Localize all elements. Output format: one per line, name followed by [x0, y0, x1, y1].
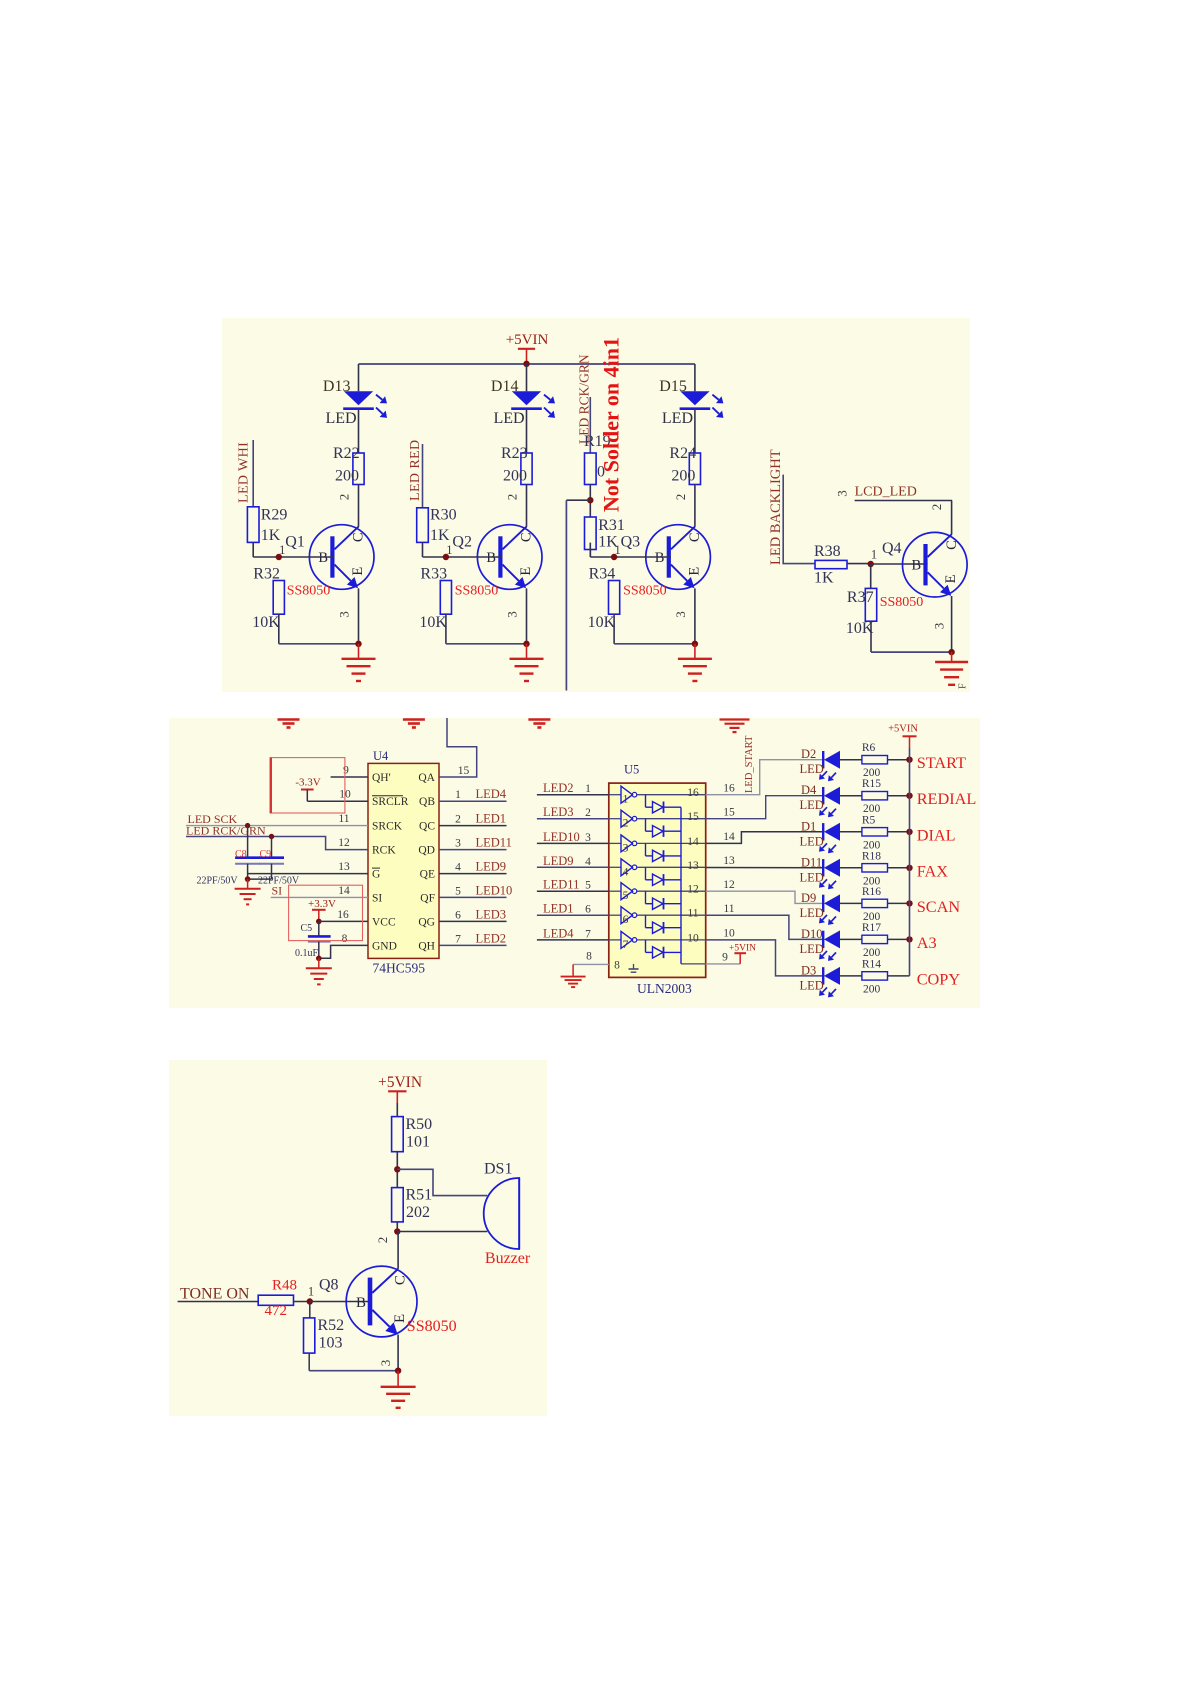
svg-text:R38: R38 [814, 543, 841, 560]
svg-text:C: C [351, 532, 367, 542]
svg-text:LED: LED [800, 762, 824, 776]
svg-text:REDIAL: REDIAL [917, 789, 977, 808]
svg-text:16: 16 [687, 787, 699, 799]
svg-text:Q8: Q8 [319, 1277, 339, 1294]
svg-text:R48: R48 [272, 1278, 297, 1294]
svg-text:+5VIN: +5VIN [506, 332, 549, 348]
svg-text:LED: LED [800, 798, 824, 812]
svg-text:1: 1 [871, 548, 877, 562]
svg-text:15: 15 [687, 811, 699, 823]
svg-text:1K: 1K [261, 527, 281, 544]
svg-text:1: 1 [279, 543, 285, 557]
svg-text:DIAL: DIAL [917, 825, 956, 844]
svg-text:TONE ON: TONE ON [180, 1286, 250, 1303]
svg-text:QA: QA [418, 772, 435, 784]
svg-text:2: 2 [929, 504, 944, 511]
svg-text:200: 200 [503, 468, 527, 485]
svg-text:LED9: LED9 [476, 860, 507, 874]
svg-text:472: 472 [265, 1303, 288, 1319]
svg-text:LED1: LED1 [476, 812, 507, 826]
svg-text:R31: R31 [598, 517, 625, 534]
svg-text:FAX: FAX [917, 861, 949, 880]
svg-text:QG: QG [418, 916, 435, 928]
svg-text:22PF/50V: 22PF/50V [197, 875, 239, 886]
svg-text:SS8050: SS8050 [407, 1318, 457, 1335]
svg-text:R5: R5 [862, 814, 876, 826]
svg-text:B: B [318, 550, 328, 566]
svg-text:A3: A3 [917, 933, 937, 952]
svg-text:D4: D4 [801, 783, 817, 797]
svg-text:2: 2 [623, 818, 629, 830]
svg-text:D1: D1 [801, 819, 816, 833]
svg-text:QE: QE [420, 869, 435, 881]
svg-text:2: 2 [673, 494, 688, 501]
svg-text:LED_START: LED_START [744, 735, 755, 793]
svg-text:QB: QB [419, 796, 435, 808]
svg-text:LED RCK/GRN: LED RCK/GRN [186, 824, 266, 838]
svg-text:QC: QC [419, 821, 435, 833]
svg-text:R22: R22 [333, 445, 360, 462]
svg-text:2: 2 [375, 1237, 390, 1244]
svg-text:QH': QH' [372, 772, 391, 784]
svg-text:74HC595: 74HC595 [373, 961, 426, 976]
svg-text:14: 14 [338, 885, 350, 897]
svg-text:202: 202 [406, 1204, 430, 1221]
svg-text:7: 7 [623, 939, 629, 951]
svg-text:GND: GND [372, 940, 397, 952]
svg-text:Q4: Q4 [882, 540, 902, 557]
svg-text:R6: R6 [862, 742, 876, 754]
svg-text:11: 11 [687, 908, 698, 920]
svg-text:10K: 10K [419, 614, 447, 631]
svg-text:G: G [372, 869, 380, 881]
svg-text:D14: D14 [491, 378, 519, 395]
svg-text:10K: 10K [846, 620, 874, 637]
svg-text:103: 103 [319, 1335, 343, 1352]
svg-text:E: E [392, 1314, 408, 1323]
svg-text:Q3: Q3 [621, 534, 641, 551]
svg-text:B: B [655, 550, 665, 566]
svg-text:LED: LED [800, 942, 824, 956]
svg-text:B: B [356, 1295, 366, 1311]
svg-text:R15: R15 [862, 778, 881, 790]
svg-text:3: 3 [623, 842, 629, 854]
svg-text:U4: U4 [373, 749, 389, 763]
svg-text:15: 15 [723, 807, 735, 819]
svg-text:+5VIN: +5VIN [378, 1074, 422, 1091]
svg-text:8: 8 [614, 960, 620, 972]
svg-text:16: 16 [723, 783, 735, 795]
svg-text:15: 15 [458, 765, 470, 777]
svg-text:E: E [943, 574, 959, 583]
svg-text:R32: R32 [253, 566, 280, 583]
svg-text:U5: U5 [624, 763, 639, 777]
svg-text:LED3: LED3 [543, 805, 574, 819]
svg-text:2: 2 [585, 807, 591, 819]
svg-text:D3: D3 [801, 963, 816, 977]
svg-text:B: B [911, 558, 921, 574]
svg-text:12: 12 [723, 879, 735, 891]
svg-text:R29: R29 [261, 507, 288, 524]
svg-text:R14: R14 [862, 958, 881, 970]
svg-text:3: 3 [455, 838, 461, 850]
svg-text:1: 1 [446, 543, 452, 557]
svg-text:SI: SI [272, 884, 283, 898]
svg-text:6: 6 [585, 904, 591, 916]
svg-text:1K: 1K [814, 570, 834, 587]
svg-text:ULN2003: ULN2003 [637, 981, 692, 996]
svg-text:11: 11 [338, 813, 349, 825]
svg-text:LED4: LED4 [543, 926, 574, 940]
svg-text:D10: D10 [801, 927, 823, 941]
svg-text:SI: SI [372, 892, 382, 904]
svg-text:LED RCK/GRN: LED RCK/GRN [577, 354, 592, 444]
svg-text:R34: R34 [589, 566, 616, 583]
svg-text:+5VIN: +5VIN [888, 724, 918, 735]
svg-text:1: 1 [614, 543, 620, 557]
svg-text:3: 3 [585, 832, 591, 844]
svg-text:QF: QF [420, 892, 435, 904]
svg-text:200: 200 [863, 947, 881, 959]
svg-text:8: 8 [342, 933, 348, 945]
svg-text:D15: D15 [659, 378, 687, 395]
svg-text:1: 1 [623, 794, 629, 806]
svg-text:C9: C9 [260, 849, 272, 860]
svg-text:COPY: COPY [917, 969, 961, 988]
svg-text:LED11: LED11 [543, 878, 579, 892]
svg-text:1K: 1K [430, 527, 450, 544]
svg-text:2: 2 [337, 494, 352, 501]
svg-text:1: 1 [585, 783, 591, 795]
svg-text:14: 14 [723, 831, 735, 843]
svg-text:SCAN: SCAN [917, 897, 961, 916]
svg-text:12: 12 [687, 884, 699, 896]
svg-text:C5: C5 [301, 923, 313, 934]
svg-text:C8: C8 [235, 849, 247, 860]
svg-text:9: 9 [722, 952, 728, 964]
svg-text:R16: R16 [862, 886, 881, 898]
svg-text:R23: R23 [501, 445, 528, 462]
svg-text:C: C [393, 1275, 409, 1285]
svg-text:9: 9 [343, 765, 349, 777]
svg-text:C: C [944, 540, 960, 550]
svg-text:RCK: RCK [372, 845, 396, 857]
svg-text:13: 13 [687, 860, 699, 872]
svg-text:10: 10 [687, 932, 699, 944]
svg-text:C: C [687, 532, 703, 542]
svg-text:LED: LED [800, 834, 824, 848]
svg-text:R33: R33 [420, 566, 447, 583]
svg-text:LED9: LED9 [543, 854, 574, 868]
svg-text:SS8050: SS8050 [623, 584, 667, 599]
svg-text:LED3: LED3 [476, 907, 507, 921]
svg-text:+5VIN: +5VIN [729, 944, 756, 954]
svg-text:LED10: LED10 [543, 830, 580, 844]
svg-text:Not Solder on 4in1: Not Solder on 4in1 [599, 337, 624, 512]
svg-text:QH: QH [418, 940, 435, 952]
svg-text:200: 200 [671, 468, 695, 485]
svg-text:R51: R51 [406, 1187, 433, 1204]
svg-text:6: 6 [623, 914, 629, 926]
svg-text:LED: LED [494, 410, 525, 427]
svg-text:1: 1 [308, 1285, 314, 1299]
svg-text:+3.3V: +3.3V [308, 898, 336, 910]
svg-text:3: 3 [378, 1360, 393, 1367]
svg-text:7: 7 [455, 933, 461, 945]
svg-text:3: 3 [505, 611, 520, 618]
svg-text:D11: D11 [801, 855, 822, 869]
svg-text:C: C [519, 532, 535, 542]
svg-text:R30: R30 [430, 507, 457, 524]
svg-text:LED: LED [800, 978, 824, 992]
svg-text:R50: R50 [406, 1116, 433, 1133]
svg-text:VCC: VCC [372, 916, 396, 928]
svg-text:R24: R24 [669, 445, 696, 462]
svg-text:SS8050: SS8050 [455, 584, 499, 599]
svg-text:SS8050: SS8050 [287, 584, 331, 599]
svg-text:LED RED: LED RED [408, 439, 423, 501]
svg-text:5: 5 [623, 890, 629, 902]
svg-text:D2: D2 [801, 747, 816, 761]
svg-text:10K: 10K [588, 614, 616, 631]
svg-text:E: E [350, 567, 366, 576]
svg-text:R18: R18 [862, 850, 881, 862]
svg-text:8: 8 [586, 951, 592, 963]
svg-text:LED: LED [326, 410, 357, 427]
svg-text:QD: QD [418, 845, 435, 857]
svg-text:4: 4 [623, 866, 629, 878]
svg-text:LED2: LED2 [543, 781, 574, 795]
svg-text:5: 5 [585, 880, 591, 892]
svg-text:-3.3V: -3.3V [295, 777, 320, 789]
svg-text:LED WHI: LED WHI [237, 442, 252, 503]
svg-text:1: 1 [455, 789, 461, 801]
svg-text:200: 200 [335, 468, 359, 485]
svg-text:D9: D9 [801, 891, 816, 905]
svg-text:0.1uF: 0.1uF [295, 948, 319, 959]
svg-text:LED: LED [800, 870, 824, 884]
svg-text:DS1: DS1 [484, 1161, 512, 1178]
svg-text:10: 10 [723, 928, 735, 940]
svg-text:R37: R37 [847, 589, 874, 606]
svg-text:16: 16 [337, 909, 349, 921]
svg-text:LED11: LED11 [476, 836, 512, 850]
svg-text:SRCK: SRCK [372, 821, 403, 833]
svg-text:D13: D13 [323, 378, 351, 395]
svg-text:LCD_LED: LCD_LED [855, 485, 917, 500]
svg-text:LED2: LED2 [476, 931, 507, 945]
svg-text:LED: LED [662, 410, 693, 427]
svg-text:3: 3 [834, 490, 849, 497]
svg-text:LED10: LED10 [476, 883, 513, 897]
svg-text:3: 3 [932, 623, 947, 630]
svg-text:SS8050: SS8050 [880, 595, 924, 610]
svg-text:101: 101 [406, 1134, 430, 1151]
svg-text:13: 13 [338, 861, 350, 873]
svg-text:3: 3 [337, 611, 352, 618]
svg-text:LED4: LED4 [476, 787, 507, 801]
svg-text:LED BACKLIGHT: LED BACKLIGHT [768, 449, 784, 565]
svg-text:4: 4 [585, 856, 591, 868]
svg-text:11: 11 [723, 903, 734, 915]
svg-text:E: E [518, 567, 534, 576]
svg-text:7: 7 [585, 928, 591, 940]
svg-text:Buzzer: Buzzer [485, 1250, 531, 1267]
svg-text:10K: 10K [252, 614, 280, 631]
svg-text:6: 6 [455, 909, 461, 921]
svg-text:14: 14 [687, 836, 699, 848]
svg-text:B: B [486, 550, 496, 566]
svg-text:E: E [687, 567, 703, 576]
svg-text:2: 2 [505, 494, 520, 501]
svg-text:F: F [958, 683, 969, 689]
svg-text:R52: R52 [318, 1317, 345, 1334]
svg-text:START: START [917, 753, 966, 772]
svg-text:13: 13 [723, 855, 735, 867]
svg-text:12: 12 [338, 837, 350, 849]
svg-text:4: 4 [455, 862, 461, 874]
svg-text:Q1: Q1 [285, 534, 305, 551]
svg-text:LED1: LED1 [543, 902, 574, 916]
svg-text:2: 2 [455, 814, 461, 826]
svg-text:Q2: Q2 [452, 534, 472, 551]
svg-text:3: 3 [673, 611, 688, 618]
svg-text:5: 5 [455, 885, 461, 897]
svg-text:200: 200 [863, 983, 881, 995]
svg-text:LED: LED [800, 906, 824, 920]
svg-text:R17: R17 [862, 922, 881, 934]
svg-text:SRCLR: SRCLR [372, 796, 409, 808]
